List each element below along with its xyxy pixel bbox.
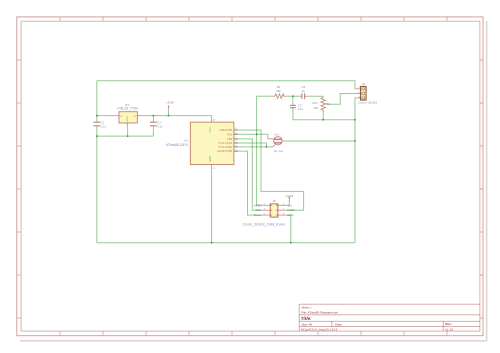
- svg-text:MK1: MK1: [274, 133, 280, 136]
- svg-text:J3: J3: [273, 199, 276, 203]
- svg-text:Sheet: /: Sheet: /: [302, 306, 312, 310]
- svg-text:U2: U2: [184, 139, 188, 143]
- svg-text:+3.3V: +3.3V: [285, 194, 293, 198]
- svg-text:1u: 1u: [302, 89, 306, 93]
- svg-text:RV1: RV1: [313, 101, 319, 105]
- svg-text:10k: 10k: [313, 106, 318, 110]
- svg-text:VCC: VCC: [208, 127, 212, 133]
- svg-text:0.1u: 0.1u: [298, 107, 304, 111]
- svg-text:RESET/PB5: RESET/PB5: [217, 149, 232, 153]
- svg-text:PB1: PB1: [227, 132, 233, 136]
- svg-text:Title:: Title:: [301, 316, 312, 321]
- svg-text:+3.3V: +3.3V: [166, 101, 174, 105]
- svg-text:0.1u: 0.1u: [157, 124, 163, 128]
- svg-text:MISO: MISO: [254, 203, 262, 207]
- svg-text:GND: GND: [208, 156, 212, 162]
- svg-text:XTAL1/PB3: XTAL1/PB3: [218, 141, 232, 145]
- svg-text:Id: 1/1: Id: 1/1: [445, 328, 453, 332]
- svg-text:File: ATtiny85-Telegraph.sch: File: ATtiny85-Telegraph.sch: [302, 311, 339, 315]
- svg-text:GND: GND: [126, 116, 129, 122]
- svg-text:SCK: SCK: [256, 208, 262, 212]
- svg-text:Rev:: Rev:: [445, 322, 451, 326]
- svg-text:L78L33_TO92: L78L33_TO92: [117, 106, 139, 110]
- svg-text:ATtiny85-20PU: ATtiny85-20PU: [166, 143, 189, 147]
- svg-text:PB2: PB2: [227, 137, 233, 141]
- svg-text:Conn_02x03_Odd_Even: Conn_02x03_Odd_Even: [243, 222, 285, 226]
- svg-text:AREF/PB0: AREF/PB0: [219, 128, 232, 132]
- svg-text:VO: VO: [133, 116, 136, 118]
- svg-text:GND: GND: [287, 213, 293, 217]
- svg-text:MOSI: MOSI: [287, 208, 294, 212]
- svg-text:Reset: Reset: [254, 213, 262, 217]
- svg-text:Mic_cond: Mic_cond: [274, 150, 283, 153]
- svg-text:Size: A4: Size: A4: [302, 322, 313, 326]
- svg-text:XTAL2/PB4: XTAL2/PB4: [218, 145, 232, 149]
- svg-text:KiCad E.D.A. kicad (5.1.5)-3: KiCad E.D.A. kicad (5.1.5)-3: [301, 328, 338, 332]
- svg-text:J1: J1: [362, 82, 365, 86]
- svg-text:Date:: Date:: [335, 322, 342, 326]
- svg-text:Conn_01x03: Conn_01x03: [358, 101, 377, 105]
- svg-text:Vcc: Vcc: [287, 203, 292, 207]
- svg-text:0.1u: 0.1u: [100, 124, 106, 128]
- svg-text:15k: 15k: [276, 89, 281, 93]
